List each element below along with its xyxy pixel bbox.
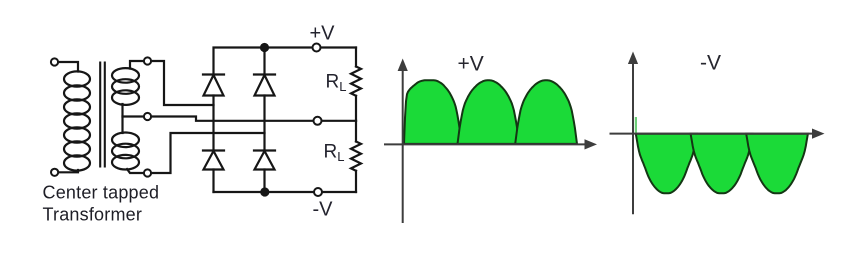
-V plot x-axis (610, 133, 814, 135)
transformer T1 core (100, 63, 105, 167)
terminal -V (314, 188, 322, 196)
waveform +V hump 2 (458, 80, 520, 144)
svg-text:Center tapped: Center tapped (43, 183, 160, 203)
transformer T1 primary terminal top (51, 58, 58, 65)
wire bridge top rail (214, 48, 313, 75)
-V plot x-axis arrowhead (812, 129, 825, 139)
transformer T1 primary terminal bottom (51, 169, 58, 176)
terminal 0V (314, 117, 322, 125)
waveform +V hump 3 (515, 80, 577, 144)
diode D2 (254, 75, 275, 96)
svg-text:-V: -V (313, 198, 334, 220)
svg-text:RL: RL (324, 142, 345, 165)
transformer T1 secondary upper winding (112, 68, 139, 105)
transformer secondary terminal top (144, 57, 151, 64)
wire AC1 to bridge left column (151, 61, 213, 105)
wire center-tap connector (121, 104, 123, 133)
waveform -V hump 2 (691, 134, 753, 194)
wire bridge bottom rail (214, 191, 315, 193)
wire top rail right of +V terminal (320, 46, 356, 48)
wire left column middle (212, 96, 214, 151)
transformer secondary center tap terminal (144, 113, 151, 120)
-V axis green segment (635, 117, 637, 133)
label Center tapped Transformer (43, 183, 160, 225)
wire (123, 115, 145, 117)
diode D1 (203, 75, 224, 96)
wire right column top (263, 48, 265, 75)
transformer secondary terminal bottom (144, 169, 151, 176)
transformer T1 secondary lower winding (112, 133, 139, 170)
-V plot y-axis (632, 62, 634, 214)
wire right column bottom (263, 170, 265, 193)
svg-text:RL: RL (326, 72, 347, 95)
resistor RL upper (351, 48, 361, 121)
junction dot top rail (260, 43, 269, 52)
wire left column bottom (212, 170, 214, 193)
svg-text:+V: +V (310, 22, 336, 44)
svg-text:Transformer: Transformer (43, 205, 143, 225)
+V plot x-axis (384, 143, 587, 145)
wire 0V right of terminal (321, 120, 356, 122)
+V plot y-axis (402, 69, 404, 223)
waveform -V hump 3 (746, 134, 808, 194)
wire (58, 62, 78, 72)
resistor RL lower (351, 121, 361, 192)
wire 0V from center tap (151, 117, 314, 121)
+V plot y-axis arrowhead (398, 59, 408, 72)
+V plot x-axis arrowhead (585, 139, 598, 149)
transformer T1 primary winding (64, 71, 90, 170)
wire bottom rail right of -V terminal (322, 191, 356, 193)
waveform +V hump 1 (404, 80, 462, 144)
-V plot y-axis arrowhead (628, 52, 638, 65)
wire right column middle (263, 96, 265, 151)
diode D4 (254, 151, 275, 170)
wire (130, 61, 144, 69)
wire AC2 to bridge right column (151, 133, 264, 173)
junction dot bottom rail (260, 187, 269, 196)
wire (58, 170, 78, 172)
terminal +V (313, 44, 321, 52)
diode D3 (203, 151, 224, 170)
waveform -V hump 1 (636, 134, 697, 194)
svg-text:-V: -V (700, 51, 721, 74)
wire (127, 169, 144, 173)
svg-text:+V: +V (458, 53, 484, 76)
